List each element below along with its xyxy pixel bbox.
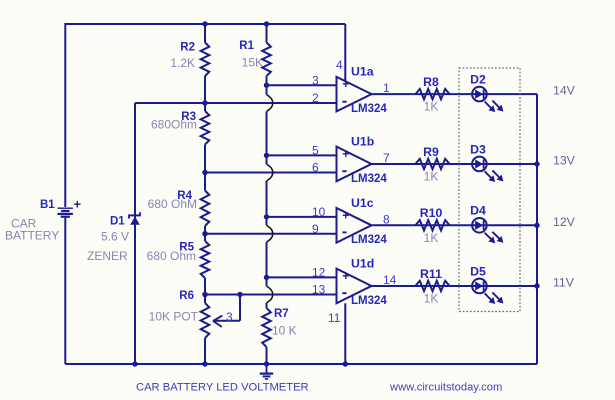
svg-text:2: 2 [312,91,319,105]
svg-text:14: 14 [383,273,397,287]
svg-text:LM324: LM324 [351,173,387,185]
svg-text:D1: D1 [110,216,125,228]
svg-text:5: 5 [312,144,319,158]
svg-text:14V: 14V [553,84,576,98]
svg-text:1: 1 [383,81,390,95]
svg-text:R10: R10 [420,206,443,220]
svg-text:10K POT: 10K POT [149,310,199,324]
svg-text:680Ohm: 680Ohm [151,118,197,132]
svg-text:BATTERY: BATTERY [5,229,59,243]
svg-text:R1: R1 [239,40,254,52]
svg-text:LM324: LM324 [351,234,387,246]
svg-text:R9: R9 [423,145,439,159]
svg-text:10 K: 10 K [272,324,297,338]
svg-text:+: + [342,269,349,283]
svg-text:D5: D5 [470,264,486,278]
svg-text:ZENER: ZENER [87,249,128,263]
svg-text:11: 11 [328,311,341,325]
svg-text:1.2K: 1.2K [170,56,195,70]
svg-text:6: 6 [312,161,319,175]
svg-text:680 Ohm: 680 Ohm [147,249,196,263]
svg-text:LM324: LM324 [351,103,387,115]
svg-text:11V: 11V [553,275,575,289]
svg-text:4: 4 [336,58,343,72]
svg-text:1K: 1K [424,291,439,305]
svg-text:1K: 1K [424,169,439,183]
svg-text:www.circuitstoday.com: www.circuitstoday.com [389,382,502,394]
svg-text:D2: D2 [470,73,486,87]
svg-text:B1: B1 [40,199,55,211]
svg-text:7: 7 [383,151,390,165]
svg-text:U1a: U1a [351,65,374,79]
svg-text:CAR BATTERY LED VOLTMETER: CAR BATTERY LED VOLTMETER [136,382,309,394]
svg-text:+: + [74,197,82,212]
svg-text:U1d: U1d [351,256,374,270]
svg-text:8: 8 [383,212,390,226]
svg-text:12: 12 [312,266,326,280]
svg-text:D4: D4 [470,204,486,218]
svg-text:+: + [342,209,349,223]
svg-text:15K: 15K [242,56,263,70]
svg-text:1K: 1K [424,231,439,245]
svg-text:9: 9 [312,222,319,236]
svg-text:U1b: U1b [351,134,374,148]
svg-text:R7: R7 [274,308,289,320]
svg-text:13V: 13V [553,153,576,167]
svg-text:+: + [342,77,349,91]
svg-text:680 OhM: 680 OhM [148,197,197,211]
svg-text:12V: 12V [553,215,576,229]
svg-text:1K: 1K [424,100,439,114]
svg-text:3: 3 [312,73,319,87]
svg-text:5.6 V: 5.6 V [101,230,129,244]
svg-text:U1c: U1c [351,196,374,210]
svg-text:3: 3 [226,310,233,324]
svg-text:R2: R2 [180,42,195,54]
svg-text:R8: R8 [423,75,439,89]
svg-text:R11: R11 [420,267,442,281]
svg-text:10: 10 [312,205,326,219]
svg-text:LM324: LM324 [351,295,387,307]
svg-text:13: 13 [312,283,326,297]
svg-text:D3: D3 [470,142,486,156]
svg-text:R6: R6 [179,290,194,302]
svg-text:+: + [342,147,349,161]
